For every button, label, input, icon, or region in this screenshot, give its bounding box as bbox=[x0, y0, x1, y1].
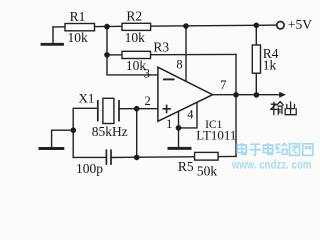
wire pin 1 bbox=[178, 111, 180, 128]
svg-text:8: 8 bbox=[176, 57, 182, 71]
svg-text:2: 2 bbox=[144, 94, 150, 108]
wire mid vertical bbox=[136, 109, 138, 158]
svg-text:1: 1 bbox=[166, 117, 172, 131]
svg-text:50k: 50k bbox=[197, 164, 218, 179]
svg-text:www. cndzz. com: www. cndzz. com bbox=[231, 160, 311, 172]
node +5V junction bbox=[253, 23, 259, 29]
wire pin 4 bbox=[179, 102, 198, 128]
resistor R5 bbox=[195, 152, 219, 160]
ground G2 left bbox=[52, 130, 74, 147]
wire bottom rail bbox=[73, 156, 106, 158]
minus input symbol bbox=[163, 78, 175, 80]
node left rail junction bbox=[71, 127, 77, 133]
wire feedback vertical bbox=[235, 54, 237, 156]
svg-text:R5: R5 bbox=[178, 159, 194, 174]
capacitor 100p bbox=[106, 149, 111, 165]
ground G3 under IC bbox=[178, 128, 180, 147]
wire output line bbox=[213, 94, 280, 96]
resistor R2 bbox=[122, 23, 151, 30]
node B junction bbox=[183, 23, 189, 29]
op-amp U1 LT1011 triangle bbox=[158, 67, 213, 121]
svg-text:4: 4 bbox=[187, 108, 194, 122]
svg-text:3: 3 bbox=[144, 66, 150, 80]
node A junction bbox=[104, 24, 110, 30]
resistor R1 bbox=[65, 24, 95, 31]
wire R3 row bbox=[107, 53, 236, 56]
wire pin 2 bbox=[119, 108, 158, 110]
svg-text:R1: R1 bbox=[70, 9, 86, 24]
svg-text:1k: 1k bbox=[263, 58, 277, 73]
resistor R4 bbox=[252, 45, 260, 73]
wire pin 8 supply bbox=[185, 26, 187, 82]
wire X1 left + left rail bbox=[73, 108, 98, 157]
wire top +5V rail bbox=[53, 25, 277, 27]
crystal X1 bbox=[98, 98, 119, 123]
svg-text:10k: 10k bbox=[125, 30, 146, 45]
plus input symbol bbox=[162, 105, 171, 114]
node output-R4 junction bbox=[254, 92, 260, 98]
label 输出 (output) glyphs bbox=[271, 102, 297, 115]
svg-text:X1: X1 bbox=[79, 91, 95, 106]
wire R4 branch bbox=[255, 25, 257, 95]
arrowhead output bbox=[279, 92, 286, 98]
watermark line1 电子电路图网 bbox=[237, 143, 313, 156]
svg-text:85kHz: 85kHz bbox=[92, 124, 128, 139]
svg-text:+5V: +5V bbox=[288, 17, 312, 32]
node pin1-pin4 junction bbox=[176, 125, 182, 131]
svg-text:100p: 100p bbox=[76, 161, 103, 176]
svg-text:R3: R3 bbox=[153, 40, 169, 55]
node X1-pin2 junction bbox=[134, 106, 140, 112]
node C junction bbox=[104, 52, 110, 58]
svg-text:7: 7 bbox=[220, 78, 226, 92]
+5V terminal circle bbox=[277, 22, 284, 29]
node output-feedback junction bbox=[233, 92, 239, 98]
svg-text:LT1011: LT1011 bbox=[196, 127, 236, 142]
svg-text:R2: R2 bbox=[126, 9, 142, 24]
ground G1 top-left bbox=[52, 27, 54, 43]
resistor R3 bbox=[122, 51, 151, 58]
wire node A down to pin3 bbox=[107, 27, 158, 75]
node bottom rail junction bbox=[134, 155, 140, 161]
svg-text:10k: 10k bbox=[67, 30, 88, 45]
